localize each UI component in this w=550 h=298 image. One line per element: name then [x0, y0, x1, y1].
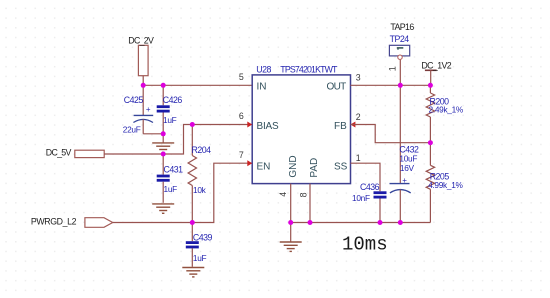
ground (C431) [152, 204, 174, 213]
junction (C426 top) [161, 83, 166, 88]
junction (BIAS/R204) [190, 122, 195, 127]
resistor R205 [426, 143, 449, 223]
capacitor C425 [124, 85, 153, 134]
svg-text:BIAS: BIAS [257, 121, 280, 132]
svg-text:1uF: 1uF [193, 253, 207, 263]
svg-text:R204: R204 [192, 145, 212, 155]
wire TP24 stem [399, 60, 401, 86]
svg-text:TAP16: TAP16 [390, 22, 414, 32]
junction (C432 bottom) [398, 220, 403, 225]
junction (OUT/DC_1V2/R200) [428, 83, 433, 88]
svg-text:C439: C439 [193, 233, 213, 243]
svg-text:EN: EN [257, 161, 271, 172]
port PWRGD_L2 [31, 216, 113, 227]
wire PWRGD_L2 net to EN [113, 163, 253, 222]
svg-text:OUT: OUT [327, 82, 347, 93]
junction (FB/R200/R205) [428, 140, 433, 145]
svg-text:DC_5V: DC_5V [46, 148, 72, 158]
junction (GND pin) [288, 220, 293, 225]
svg-text:10k: 10k [193, 185, 207, 195]
wire OUT net [351, 84, 431, 86]
C432 value labels [399, 153, 417, 173]
svg-text:TPS74201KTWT: TPS74201KTWT [280, 65, 338, 75]
svg-text:1uF: 1uF [164, 184, 178, 194]
svg-text:1uF: 1uF [163, 115, 177, 125]
svg-text:3: 3 [356, 72, 361, 82]
resistor R200 [426, 85, 449, 142]
wire GND pin stem [290, 184, 292, 223]
wire IN net [143, 84, 252, 86]
ground (C425/C426) [152, 134, 174, 153]
svg-text:+: + [402, 176, 407, 185]
svg-text:10ms: 10ms [342, 234, 388, 256]
svg-text:4: 4 [278, 192, 288, 197]
junction (DC_2V/IN) [141, 83, 146, 88]
port DC_5V [46, 148, 104, 158]
svg-text:22uF: 22uF [123, 125, 141, 135]
svg-text:C425: C425 [124, 95, 144, 105]
svg-text:PAD: PAD [309, 158, 320, 178]
svg-text:C431: C431 [164, 164, 184, 174]
svg-text:4.99k_1%: 4.99k_1% [428, 180, 463, 190]
ground (U28) [280, 223, 302, 252]
svg-text:C426: C426 [163, 95, 183, 105]
capacitor C439 [186, 223, 213, 267]
pin arrow FB [351, 122, 356, 128]
svg-text:10nF: 10nF [352, 193, 370, 203]
svg-text:10uF: 10uF [399, 153, 417, 163]
wire C425-C426 bottom [143, 133, 163, 135]
svg-text:GND: GND [288, 155, 299, 177]
svg-text:FB: FB [334, 121, 347, 132]
port DC_2V [128, 35, 154, 75]
capacitor C436 [360, 182, 387, 223]
svg-text:1: 1 [356, 153, 361, 163]
svg-text:2.49k_1%: 2.49k_1% [429, 104, 464, 114]
wire PAD pin stem [309, 184, 311, 223]
junction (cap bottom gnd) [161, 131, 166, 136]
pin arrow EN [247, 160, 252, 166]
svg-text:16V: 16V [400, 163, 415, 173]
svg-text:TP24: TP24 [390, 34, 410, 44]
svg-text:PWRGD_L2: PWRGD_L2 [31, 216, 77, 226]
svg-text:DC_1V2: DC_1V2 [421, 60, 451, 70]
test point TP24 [389, 22, 414, 59]
wire ground bus [291, 222, 431, 224]
svg-text:+: + [146, 105, 151, 114]
junction (PAD pin) [308, 220, 313, 225]
svg-text:IN: IN [257, 82, 267, 93]
svg-text:2: 2 [356, 112, 361, 122]
svg-text:7: 7 [239, 150, 244, 160]
svg-text:8: 8 [298, 192, 308, 197]
pin arrow BIAS [247, 122, 252, 128]
capacitor C432 [390, 85, 420, 222]
op-amp U28 regulator body [252, 65, 350, 184]
wire DC_5V net [104, 125, 252, 155]
svg-text:DC_2V: DC_2V [128, 35, 154, 45]
ground (C439) [182, 268, 204, 277]
wire FB net [351, 125, 431, 143]
junction (PWRGD/R204/C439) [190, 220, 195, 225]
svg-text:5: 5 [239, 72, 244, 82]
capacitor C431 [157, 154, 183, 203]
svg-text:1: 1 [387, 66, 397, 71]
svg-text:C436: C436 [360, 182, 380, 192]
junction (TP24/OUT) [398, 83, 403, 88]
power symbol DC_1V2 [421, 60, 451, 85]
capacitor C426 [157, 85, 183, 134]
svg-text:SS: SS [334, 161, 348, 172]
wire DC_2V stem [142, 76, 144, 86]
wire SS net [351, 163, 381, 191]
svg-text:U28: U28 [256, 65, 271, 75]
svg-text:6: 6 [239, 111, 244, 121]
junction (DC_5V/C431) [161, 152, 166, 157]
resistor R204 [188, 125, 211, 223]
junction (C436 bottom) [378, 220, 383, 225]
